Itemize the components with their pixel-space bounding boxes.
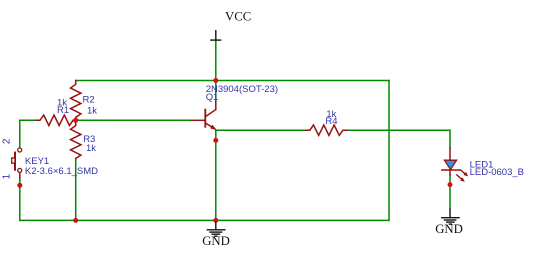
svg-text:R4: R4 [325,116,337,127]
svg-text:1k: 1k [87,105,97,116]
svg-text:GND: GND [435,222,463,236]
svg-text:LED-0603_B: LED-0603_B [470,167,524,178]
svg-text:K2-3.6×6.1_SMD: K2-3.6×6.1_SMD [25,166,98,177]
svg-text:R1: R1 [57,105,69,116]
svg-text:1k: 1k [86,143,96,154]
svg-text:2: 2 [2,138,13,144]
svg-text:R2: R2 [83,95,95,106]
svg-text:GND: GND [202,234,230,248]
svg-text:VCC: VCC [225,9,251,23]
svg-text:1: 1 [2,173,13,179]
svg-text:Q1: Q1 [206,92,219,103]
